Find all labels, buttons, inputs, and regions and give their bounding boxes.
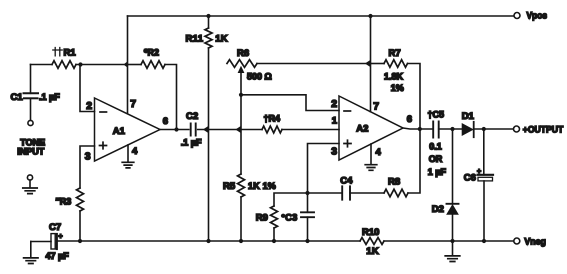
svg-text:C1: C1 (11, 92, 24, 103)
svg-text:1 µF: 1 µF (428, 167, 447, 177)
svg-text:D1: D1 (462, 111, 475, 122)
svg-text:6: 6 (407, 114, 412, 125)
terminal: tone input return (27, 175, 32, 180)
ground (A2 pin 4) (365, 165, 377, 171)
junction arrow at R11 crossing (203, 126, 209, 133)
wire: A2 pin 3 (308, 144, 340, 194)
svg-text:6: 6 (163, 116, 168, 127)
svg-text:3: 3 (85, 150, 91, 162)
svg-text:R9: R9 (256, 213, 268, 224)
svg-text:7: 7 (130, 98, 136, 110)
svg-text:4: 4 (132, 146, 138, 157)
potentiometer R6 500 ohm (227, 60, 257, 68)
node: R3 / bias rail (78, 239, 82, 243)
bottom bias rail (31, 241, 51, 243)
wire: to A1 pin 2 (80, 65, 95, 112)
svg-text:47 µF: 47 µF (46, 251, 70, 261)
wire: R4 to A2 pin 1 (282, 129, 339, 131)
node wiper line (239, 93, 243, 97)
svg-text:4: 4 (376, 147, 382, 158)
node: top rail / A2 pin7 drop (368, 14, 372, 18)
inverting input mark A1 (100, 111, 107, 113)
svg-text:*R2: *R2 (144, 47, 159, 57)
svg-text:C2: C2 (186, 111, 198, 122)
capacitor C2 .1 uF (191, 124, 196, 136)
node C5/D1/D2 (450, 127, 454, 131)
svg-text:+: + (59, 234, 63, 241)
capacitor C1 .1 uF (30, 65, 32, 94)
node R1/pin2 (78, 62, 82, 66)
svg-text:†C5: †C5 (428, 109, 445, 119)
svg-text:500 Ω: 500 Ω (247, 71, 272, 81)
node: D2 / rail (450, 239, 454, 243)
diode D1 (462, 124, 473, 135)
resistor R10 1K (360, 238, 384, 245)
terminal Vpos (514, 13, 520, 19)
wire: C7 left to ground (30, 242, 32, 258)
svg-text:R6: R6 (237, 48, 249, 59)
junction jog at R2 left (124, 61, 129, 68)
wire: wiper line to A2 pin 2 (241, 95, 339, 111)
svg-text:.1 µF: .1 µF (181, 138, 202, 148)
svg-text:A2: A2 (356, 123, 368, 134)
resistor R3 (77, 188, 84, 211)
resistor R1 (31, 64, 53, 66)
resistor R5 1K 1% (240, 95, 242, 174)
svg-text:3: 3 (331, 145, 337, 157)
wire: A1 pin 3 (80, 146, 95, 188)
bottom rail segments (58, 240, 360, 242)
node A2 out (418, 127, 422, 131)
resistor R7 1.8K 1% (365, 60, 371, 67)
resistor R9 (274, 193, 308, 206)
wire: A1 pin 4 to ground (127, 145, 129, 162)
node: C3 / bias rail (305, 239, 309, 243)
svg-text:+OUTPUT: +OUTPUT (523, 125, 564, 136)
svg-text:R11: R11 (186, 34, 204, 45)
ground (tone input) (23, 188, 37, 194)
op-amp A2 (339, 96, 403, 160)
svg-text:†R4: †R4 (264, 113, 281, 123)
svg-text:R8: R8 (388, 176, 400, 187)
svg-text:INPUT: INPUT (17, 146, 45, 156)
capacitor C5 (433, 122, 439, 138)
wire/diode D2 branch (452, 129, 454, 204)
junction pin3/R9/C4/C3 (305, 191, 309, 195)
svg-text:R1: R1 (64, 48, 77, 59)
wire: rail drop to A1 pin 7 (127, 16, 129, 113)
svg-text:1K: 1K (215, 34, 228, 45)
svg-text:1K: 1K (366, 246, 379, 257)
wire: A1 output line (160, 129, 189, 131)
ground (bottom rail) (452, 241, 454, 255)
svg-text:C6: C6 (464, 172, 476, 183)
svg-text:°C3: °C3 (281, 213, 297, 224)
svg-text:1.8K: 1.8K (384, 71, 404, 81)
svg-text:A1: A1 (113, 126, 126, 137)
wire: R6 to A2 pin7 node (257, 63, 371, 65)
capacitor C3 (307, 193, 309, 212)
svg-text:+: + (477, 169, 481, 176)
svg-text:1K 1%: 1K 1% (248, 181, 276, 191)
svg-text:Vpos: Vpos (527, 11, 548, 22)
svg-text:Vneg: Vneg (524, 237, 546, 248)
svg-text:0.1: 0.1 (429, 141, 442, 151)
node: R5 / bias rail (239, 239, 243, 243)
svg-text:C7: C7 (49, 222, 61, 233)
svg-text:2: 2 (86, 100, 92, 112)
wire: A2 output (403, 128, 433, 129)
resistor R4 (262, 126, 282, 133)
wire: rail to A2 pin 7 (370, 16, 372, 112)
resistor R11 1K (208, 16, 210, 28)
wire: A2 pin 4 to ground (370, 144, 372, 164)
svg-text:1%: 1% (391, 83, 404, 93)
terminal +OUTPUT (514, 126, 520, 132)
svg-text:″R3: ″R3 (56, 197, 72, 207)
R6 wiper arrow (240, 71, 242, 95)
svg-text:1: 1 (332, 115, 338, 126)
svg-text:C4: C4 (340, 175, 353, 186)
node: top rail / R11 (206, 14, 210, 18)
node: R9 / bias rail (272, 239, 276, 243)
capacitor C7 47uF (51, 234, 55, 249)
resistor R2 (128, 64, 142, 66)
junction arrow at R5 top (235, 126, 241, 133)
svg-text:R10: R10 (362, 227, 379, 238)
svg-text:7: 7 (373, 101, 379, 113)
svg-text:OR: OR (429, 154, 443, 164)
capacitor C6 branch (483, 129, 485, 175)
resistor R8 (384, 189, 408, 197)
ground (A1 pin 4) (122, 162, 134, 168)
node: R11 / bias rail (206, 239, 210, 243)
non-inverting input mark A2 (344, 140, 351, 147)
svg-text:D2: D2 (432, 204, 444, 215)
node: C6 / rail (482, 239, 486, 243)
ground (C7) (24, 258, 38, 264)
capacitor C4 (308, 192, 343, 194)
node A1 out / R2 (174, 127, 178, 131)
svg-text:2: 2 (331, 98, 337, 110)
terminal Vneg (514, 238, 520, 244)
svg-text:.1 µF: .1 µF (39, 92, 60, 102)
terminal: tone input top (28, 120, 33, 125)
node D1/C6 (482, 127, 486, 131)
svg-text:R5: R5 (223, 181, 236, 192)
wire: Vpos top rail (128, 15, 514, 17)
svg-text:R7: R7 (389, 48, 401, 59)
op-amp A1 (95, 98, 161, 161)
non-inverting input mark A1 (100, 142, 107, 149)
inverting input mark A2 (344, 110, 351, 112)
